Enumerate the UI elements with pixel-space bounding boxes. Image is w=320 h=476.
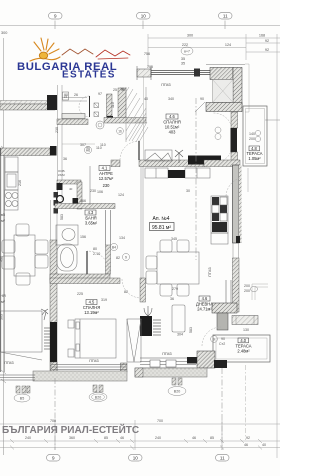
svg-text:85: 85 (210, 436, 214, 440)
svg-text:92: 92 (265, 48, 269, 52)
svg-text:222: 222 (182, 43, 188, 47)
svg-text:35: 35 (181, 62, 185, 66)
svg-text:230: 230 (103, 183, 111, 188)
svg-text:Ап. №4: Ап. №4 (153, 216, 170, 222)
svg-text:340: 340 (168, 97, 174, 101)
svg-text:82: 82 (116, 256, 120, 260)
svg-text:9: 9 (213, 338, 215, 342)
svg-text:40: 40 (69, 187, 73, 191)
svg-text:ПП43: ПП43 (4, 361, 13, 365)
svg-text:92: 92 (265, 39, 269, 43)
svg-text:225: 225 (77, 292, 83, 296)
svg-text:95.81 м²: 95.81 м² (152, 225, 171, 231)
svg-text:4.6: 4.6 (169, 114, 175, 119)
svg-text:700: 700 (50, 419, 56, 423)
svg-text:360: 360 (69, 436, 75, 440)
svg-text:ESTATES: ESTATES (62, 70, 116, 81)
svg-text:230: 230 (90, 189, 96, 193)
svg-text:200: 200 (244, 289, 250, 293)
svg-text:46: 46 (192, 436, 196, 440)
svg-text:300: 300 (187, 34, 193, 38)
svg-text:в5: в5 (1, 213, 5, 217)
svg-text:97: 97 (98, 92, 102, 96)
svg-text:756: 756 (144, 52, 150, 56)
svg-text:КЪМ: КЪМ (58, 173, 65, 177)
svg-text:110: 110 (100, 143, 106, 147)
svg-text:БЪЛГАРИЯ РИАЛ-ЕСТЕЙТС: БЪЛГАРИЯ РИАЛ-ЕСТЕЙТС (2, 423, 139, 436)
svg-text:90: 90 (221, 337, 225, 341)
svg-text:Ст2: Ст2 (219, 342, 225, 346)
svg-text:124: 124 (118, 193, 124, 197)
svg-text:140: 140 (249, 132, 255, 136)
svg-text:4.0: 4.0 (240, 338, 246, 343)
svg-text:583: 583 (189, 327, 193, 333)
svg-text:130: 130 (243, 328, 249, 332)
svg-text:11: 11 (223, 14, 228, 19)
svg-text:4.5: 4.5 (89, 300, 95, 305)
svg-text:36: 36 (170, 297, 174, 301)
svg-text:240: 240 (155, 436, 161, 440)
svg-text:46: 46 (120, 436, 124, 440)
svg-text:110: 110 (111, 102, 115, 108)
svg-text:200: 200 (249, 137, 255, 141)
svg-text:2.48м²: 2.48м² (237, 349, 250, 354)
svg-text:4.6: 4.6 (202, 296, 208, 301)
svg-text:в+7: в+7 (184, 50, 190, 54)
svg-text:46: 46 (244, 443, 248, 447)
svg-text:300: 300 (1, 31, 7, 35)
svg-text:200: 200 (244, 284, 250, 288)
svg-text:82: 82 (124, 290, 128, 294)
svg-text:85: 85 (104, 436, 108, 440)
svg-text:156: 156 (80, 235, 86, 239)
svg-text:ПП43: ПП43 (208, 267, 212, 276)
svg-text:ПП43: ПП43 (89, 359, 98, 363)
svg-text:30: 30 (121, 88, 125, 92)
svg-text:В4: В4 (112, 246, 116, 250)
svg-text:240: 240 (25, 436, 31, 440)
svg-text:319: 319 (101, 298, 107, 302)
svg-text:В20: В20 (95, 396, 101, 400)
svg-text:403: 403 (169, 130, 177, 135)
svg-text:4.1: 4.1 (102, 166, 108, 171)
svg-text:106: 106 (97, 190, 103, 194)
svg-text:13.19м²: 13.19м² (84, 310, 99, 315)
svg-text:3.65м²: 3.65м² (85, 221, 98, 226)
svg-text:26: 26 (74, 93, 78, 97)
svg-text:2-10: 2-10 (93, 252, 100, 256)
svg-text:90: 90 (200, 97, 204, 101)
svg-text:134: 134 (119, 236, 125, 240)
svg-text:92: 92 (246, 436, 250, 440)
svg-text:168: 168 (259, 34, 265, 38)
svg-text:166: 166 (80, 199, 86, 203)
svg-text:9: 9 (125, 256, 127, 260)
svg-text:25: 25 (113, 88, 117, 92)
svg-text:В20: В20 (174, 390, 180, 394)
svg-text:345: 345 (171, 237, 177, 241)
svg-text:В5: В5 (20, 397, 24, 401)
svg-text:40: 40 (144, 97, 148, 101)
svg-text:9: 9 (52, 456, 55, 461)
svg-text:4.3: 4.3 (88, 210, 94, 215)
svg-text:40: 40 (262, 443, 266, 447)
svg-text:124: 124 (225, 43, 231, 47)
svg-text:НЯ: НЯ (0, 294, 6, 298)
svg-text:30: 30 (186, 189, 190, 193)
svg-text:ПП43: ПП43 (161, 83, 170, 87)
svg-text:1.05м²: 1.05м² (248, 156, 261, 161)
svg-text:11: 11 (220, 456, 225, 461)
svg-text:216: 216 (18, 180, 22, 186)
svg-text:12.57м²: 12.57м² (99, 176, 114, 181)
svg-text:705: 705 (147, 65, 153, 69)
svg-text:9: 9 (54, 14, 57, 19)
svg-text:35: 35 (181, 57, 185, 61)
svg-text:ПП43: ПП43 (162, 352, 171, 356)
svg-text:24.71м²: 24.71м² (197, 307, 212, 312)
svg-text:80: 80 (93, 247, 97, 251)
svg-text:230: 230 (55, 127, 59, 133)
svg-text:304: 304 (177, 333, 183, 337)
svg-text:90: 90 (86, 146, 90, 150)
svg-text:279: 279 (172, 287, 178, 291)
svg-text:36: 36 (63, 157, 67, 161)
svg-text:10: 10 (133, 456, 139, 461)
svg-text:10: 10 (141, 14, 147, 19)
svg-text:700: 700 (157, 419, 163, 423)
svg-text:90: 90 (64, 93, 68, 97)
svg-text:16: 16 (118, 130, 122, 134)
svg-text:583: 583 (60, 214, 64, 220)
